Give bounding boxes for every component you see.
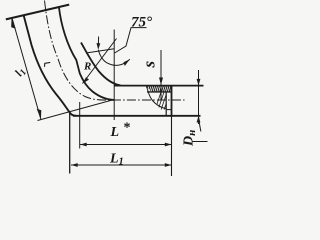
dimension l1: inclined dimension line parallel to pipe bbox=[12, 18, 41, 120]
wire: inclined pipe right (inner) wall + inner bend curve bbox=[59, 8, 114, 101]
tick mark near l1 label bbox=[45, 62, 51, 66]
angle leg line (perpendicular to inclined axis, near-horizontal) bbox=[86, 49, 114, 53]
dimension L1: horizontal dimension line bbox=[71, 164, 172, 166]
svg-text:R: R bbox=[83, 61, 91, 73]
wire: weld groove vertical line near end face bbox=[165, 92, 167, 116]
extension line for L* bbox=[79, 102, 81, 149]
svg-text:75°: 75° bbox=[131, 15, 152, 31]
arrowhead l1 bottom (points down-right onto bend-start extension line) bbox=[37, 109, 42, 120]
arrowhead on angle arc left end (points down onto leg line) bbox=[97, 43, 101, 50]
angle dimension arc 75deg bbox=[98, 50, 130, 66]
hatching below inner line (wedge at groove) bbox=[155, 92, 170, 110]
extension line at bend start (perpendicular to inclined pipe) bbox=[38, 100, 115, 121]
wire: horizontal pipe bottom wall (extended right for D_H extension) bbox=[73, 115, 201, 117]
short line right of D_H label bbox=[193, 141, 208, 143]
dimension s: vertical line with arrow onto top wall bbox=[160, 50, 162, 100]
wire: inclined pipe left (outer) wall + outer bend curve bbox=[24, 15, 77, 116]
wire: pipe centerline (dash-dot), inclined + bend arc + horizontal bbox=[45, 1, 185, 101]
leader for 75 label bbox=[115, 28, 147, 53]
svg-text:*: * bbox=[124, 121, 131, 136]
wire: pipe end cap line (upper-left free end) bbox=[6, 5, 69, 20]
wire: inner bend wall curve (diagonal stroke to top wall tangent) bbox=[81, 43, 121, 86]
arrowhead l1 top (points up-left onto cap line) bbox=[11, 18, 16, 29]
svg-text:L: L bbox=[110, 125, 120, 140]
dimension L*: horizontal dimension line bbox=[80, 144, 172, 146]
wire: weld groove horizontal line bbox=[166, 109, 171, 111]
hatching of sectioned wall bbox=[144, 85, 175, 94]
pipe elbow technical drawing bbox=[0, 0, 209, 178]
arrowhead on angle arc right end (points right-up) bbox=[124, 59, 130, 66]
arrowhead R (points down-left onto centerline arc) bbox=[83, 77, 90, 83]
wire: wavy break line of broken-out section bbox=[146, 86, 166, 108]
svg-text:s: s bbox=[140, 61, 159, 69]
wire: horizontal pipe top wall (extended right for D_H extension) bbox=[114, 85, 204, 87]
extension line: vertical through bend end / angle leg bbox=[113, 30, 115, 121]
dimension D_H: vertical dimension line at right with outside arrows bbox=[198, 70, 200, 124]
extension line for L1 bbox=[69, 113, 71, 174]
wire: pipe right end face + extension down for L dims bbox=[171, 86, 173, 117]
dimension R: radial leader line bbox=[83, 39, 117, 84]
wire: inner bore surface line in broken-out section bbox=[147, 91, 172, 93]
